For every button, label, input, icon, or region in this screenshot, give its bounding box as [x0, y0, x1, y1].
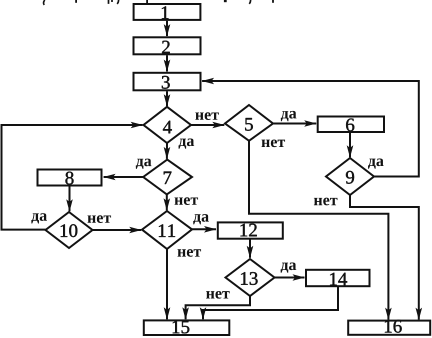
digit 1 in box 1: [162, 6, 169, 19]
wire 9 да loop to box 3: [202, 81, 419, 177]
digit 4 in diamond 4: [163, 121, 172, 134]
label нет (4 to 5): [195, 112, 219, 120]
digit 9 in diamond 9: [346, 171, 354, 184]
wire 3 to 4: [166, 91, 168, 106]
wire 13 нет to box 15: [186, 296, 250, 320]
wire 2 to 3: [166, 55, 168, 71]
text fragment letter stem: [75, 0, 77, 3]
diamond 4: [144, 107, 192, 143]
box 1: [134, 4, 201, 20]
text fragment comma: [249, 0, 250, 4]
digit 15 in box 15: [173, 321, 190, 334]
text fragment letter stem: [272, 0, 274, 3]
label нет (7 to 11): [175, 197, 199, 205]
wire 10 да loop to 4: [2, 125, 143, 230]
digit 6 in box 6: [346, 119, 354, 132]
wire 11 да to 12: [192, 228, 216, 230]
label да (9 loop to 3): [368, 159, 384, 169]
digit 11 in diamond 11: [159, 224, 175, 237]
wire 9 нет to box 16: [350, 195, 419, 320]
label да (11 to 12): [193, 214, 209, 224]
digit 7 in diamond 7: [164, 172, 172, 184]
diamond 10: [46, 212, 93, 248]
text fragment "(" cut at top edge: [44, 0, 45, 5]
label нет (11 to 15): [178, 249, 202, 257]
label да (5 to 6): [281, 111, 297, 121]
wire 13 да to 14: [275, 277, 305, 279]
diamond 9: [326, 158, 374, 195]
label да (4 to 7): [179, 139, 195, 149]
digit 5 in diamond 5: [245, 118, 253, 131]
wire 12 to 13: [249, 239, 251, 258]
box 3: [134, 73, 201, 91]
label нет (9 to 16): [314, 198, 338, 206]
wire 14 to box 15: [203, 287, 338, 319]
wire 5 да to 6: [273, 123, 316, 125]
label нет (5 down): [262, 139, 286, 147]
wire 7 нет to 11: [166, 194, 168, 210]
box 12: [218, 222, 283, 238]
label да (13 to 14): [281, 263, 297, 273]
box 16: [348, 321, 430, 335]
label да (10 loop to 4): [31, 213, 47, 223]
wire 7 да to 8: [104, 176, 144, 178]
label нет (13 to 15): [206, 291, 230, 299]
wire 11 нет to box 15: [166, 249, 168, 319]
diamond 11: [142, 211, 192, 249]
diamond 13: [226, 259, 275, 296]
wire 6 to 9: [349, 133, 351, 157]
digit 10 in diamond 10: [61, 224, 78, 237]
wire 4 да to 7: [166, 143, 168, 159]
digit 13 in diamond 13: [241, 272, 258, 285]
box 15: [144, 320, 230, 335]
text fragment letter stem: [146, 0, 148, 3]
digit 14 in box 14: [330, 273, 347, 286]
label нет (10 to 11): [88, 215, 112, 223]
digit 16 in box 16: [385, 320, 402, 333]
box 6: [318, 117, 384, 133]
box 8: [38, 170, 102, 186]
text fragment "р," descenders: [109, 0, 119, 4]
box 2: [134, 37, 201, 54]
digit 3 in box 3: [162, 76, 170, 89]
text fragment dash: [224, 0, 227, 2]
wire 10 нет to 11: [93, 229, 142, 231]
wire 5 нет to box 16: [249, 141, 388, 320]
box 14: [306, 270, 370, 286]
label да (7 to 8): [136, 159, 152, 169]
diamond 5: [225, 105, 273, 141]
diamond 7: [143, 160, 192, 195]
digit 8 in box 8: [65, 172, 73, 185]
wire 8 to 10: [69, 186, 71, 211]
digit 12 in box 12: [240, 224, 256, 237]
wire 4 нет to 5: [191, 124, 225, 126]
wire 1 to 2: [166, 21, 168, 36]
digit 2 in box 2: [162, 41, 170, 54]
